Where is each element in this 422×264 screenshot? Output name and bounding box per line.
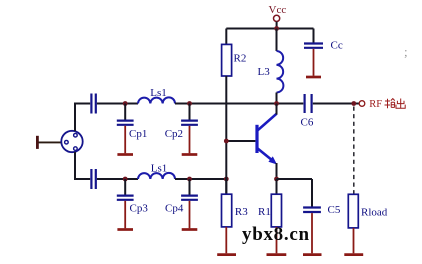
wire — [175, 103, 303, 105]
wire — [225, 29, 227, 45]
wire — [75, 104, 90, 132]
wire — [39, 141, 62, 143]
svg-text:;: ; — [404, 44, 408, 59]
svg-text:R2: R2 — [234, 53, 247, 65]
wire — [97, 103, 138, 105]
inductor L3 — [258, 29, 284, 104]
label 输出 (RF output, hand-drawn glyphs) — [385, 99, 406, 109]
ground — [267, 227, 287, 255]
node (emitter) — [274, 177, 279, 182]
node (collector) — [274, 101, 279, 106]
svg-text:RF: RF — [369, 99, 382, 110]
inductor Ls1 (top) — [138, 87, 175, 104]
capacitor Cc — [304, 29, 343, 52]
wire — [75, 152, 90, 179]
svg-text:C5: C5 — [328, 204, 341, 216]
transistor Q1 — [255, 114, 277, 165]
node (Vcc rail) — [274, 26, 279, 31]
ground — [217, 227, 236, 255]
svg-text:Rload: Rload — [361, 206, 388, 218]
wire (dashed to load) — [353, 107, 355, 195]
capacitor Cp1 — [117, 104, 148, 140]
wire — [225, 179, 227, 194]
capacitor Cp4 — [165, 179, 198, 214]
svg-text:L3: L3 — [258, 66, 271, 78]
node (bottom branch / base column) — [224, 177, 229, 182]
wire (collector stub) — [276, 104, 278, 115]
wire — [311, 179, 313, 207]
capacitor (series, top branch) — [91, 94, 95, 114]
wire — [276, 22, 278, 29]
wire (base) — [226, 140, 255, 142]
wire — [226, 28, 313, 30]
node (base) — [224, 139, 229, 144]
wire — [225, 76, 227, 194]
crystal Y1 — [61, 131, 82, 152]
svg-text:R1: R1 — [258, 206, 271, 218]
capacitor Cp3 — [117, 179, 149, 214]
svg-text:ybx8.cn: ybx8.cn — [242, 224, 310, 245]
ground — [182, 201, 198, 230]
node (top branch / Cp1) — [123, 101, 128, 106]
svg-text:Cp2: Cp2 — [165, 128, 183, 140]
node (bottom branch / Cp4) — [187, 177, 192, 182]
node (RF output) — [351, 101, 356, 106]
svg-text:Cc: Cc — [331, 40, 343, 52]
svg-text:Ls1: Ls1 — [150, 87, 167, 99]
svg-text:Ls1: Ls1 — [151, 163, 168, 175]
wire — [313, 103, 359, 105]
resistor R1 — [258, 194, 282, 227]
node (top branch / Cp2) — [187, 101, 192, 106]
svg-text:C6: C6 — [301, 117, 314, 129]
resistor Rload — [348, 194, 387, 228]
wire — [276, 179, 278, 194]
ground — [306, 49, 321, 77]
svg-text:Vcc: Vcc — [269, 4, 287, 16]
power Vcc — [269, 4, 287, 21]
terminal RF output — [359, 99, 382, 110]
ground — [303, 213, 322, 255]
input terminal — [36, 136, 39, 149]
wire — [175, 178, 226, 180]
wire — [277, 178, 313, 180]
inductor Ls1 (bottom) — [138, 163, 175, 180]
svg-text:Cp3: Cp3 — [130, 202, 149, 214]
ground — [344, 228, 363, 255]
ground — [117, 201, 133, 230]
capacitor C5 — [303, 204, 341, 216]
ground — [117, 126, 133, 155]
svg-text:Cp4: Cp4 — [165, 202, 184, 214]
wire — [97, 178, 138, 180]
resistor R3 — [222, 194, 249, 227]
capacitor (series, bottom branch) — [91, 169, 95, 189]
svg-text:R3: R3 — [235, 206, 248, 218]
ground — [182, 126, 198, 155]
wire (emitter stub) — [276, 163, 278, 179]
capacitor C6 — [301, 94, 314, 129]
capacitor Cp2 — [165, 104, 198, 140]
node (bottom branch / Cp3) — [123, 177, 128, 182]
svg-text:Cp1: Cp1 — [129, 128, 147, 140]
resistor R2 — [222, 44, 247, 76]
